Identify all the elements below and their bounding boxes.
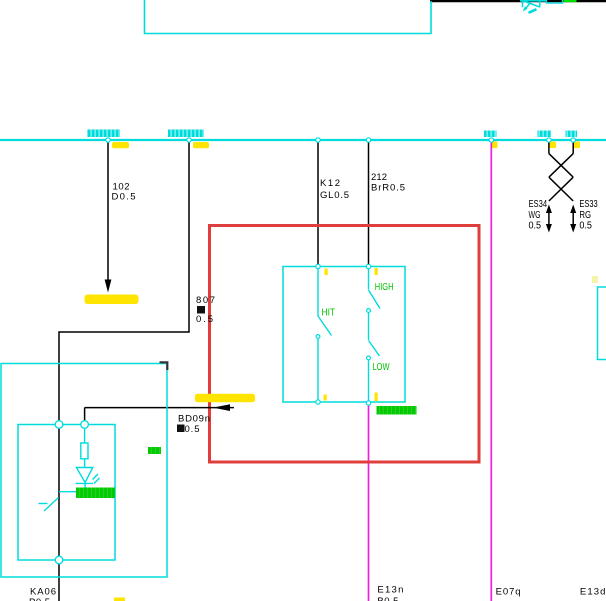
svg-text:K12: K12 — [320, 178, 340, 189]
svg-text:RG: RG — [579, 209, 591, 220]
svg-text:HIT: HIT — [322, 307, 336, 319]
svg-text:0.5: 0.5 — [579, 220, 592, 232]
svg-text:B0.5: B0.5 — [377, 596, 398, 601]
svg-text:E07q: E07q — [496, 587, 521, 598]
svg-text:KA06: KA06 — [30, 587, 56, 598]
svg-text:HIGH: HIGH — [375, 281, 394, 292]
svg-text:LOW: LOW — [373, 361, 390, 372]
svg-text:BrR0.5: BrR0.5 — [371, 183, 405, 194]
svg-text:ES34: ES34 — [529, 198, 548, 209]
svg-text:212: 212 — [371, 172, 387, 183]
svg-text:GL0.5: GL0.5 — [320, 190, 349, 201]
svg-text:E13n: E13n — [377, 585, 403, 596]
svg-text:0.5: 0.5 — [185, 424, 200, 435]
svg-text:ES33: ES33 — [579, 198, 597, 209]
svg-text:E13d: E13d — [580, 587, 606, 598]
svg-text:807: 807 — [196, 295, 215, 306]
svg-text:0.5: 0.5 — [529, 220, 542, 232]
svg-text:D0.5: D0.5 — [112, 192, 136, 203]
svg-text:0.5: 0.5 — [196, 314, 213, 325]
svg-text:P0.5: P0.5 — [29, 597, 50, 601]
